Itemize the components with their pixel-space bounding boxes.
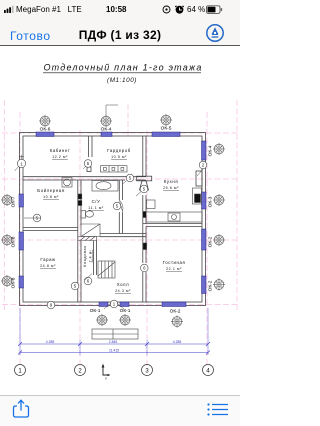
svg-text:24.3 м²: 24.3 м²	[115, 289, 131, 293]
svg-text:Кухня: Кухня	[164, 179, 179, 184]
svg-text:ОК-3: ОК-3	[208, 196, 214, 207]
svg-text:Кабинет: Кабинет	[50, 148, 71, 153]
svg-text:Гардероб: Гардероб	[107, 148, 131, 153]
svg-text:4.285: 4.285	[173, 340, 182, 344]
svg-text:24.8 м²: 24.8 м²	[40, 264, 56, 268]
svg-text:Гараж: Гараж	[40, 257, 55, 262]
svg-text:ОК-4: ОК-4	[101, 127, 112, 133]
svg-text:ОК-5: ОК-5	[161, 126, 172, 132]
svg-text:Гостиная: Гостиная	[163, 260, 186, 265]
svg-text:Бойлерная: Бойлерная	[37, 188, 64, 193]
svg-text:10.8 м²: 10.8 м²	[43, 195, 59, 199]
svg-text:25.6 м²: 25.6 м²	[163, 186, 179, 190]
svg-text:ОК-7: ОК-7	[11, 196, 17, 207]
svg-text:2.845: 2.845	[109, 340, 118, 344]
svg-text:4.285: 4.285	[46, 340, 55, 344]
svg-text:22.1 м²: 22.1 м²	[166, 267, 182, 271]
svg-text:Y: Y	[105, 377, 108, 381]
svg-text:3: 3	[145, 369, 149, 375]
svg-text:Кладовая: Кладовая	[83, 245, 87, 267]
svg-text:ОК-4: ОК-4	[208, 145, 214, 156]
svg-text:Отделочный план 1-го этажа: Отделочный план 1-го этажа	[43, 63, 202, 73]
svg-text:ОК-6: ОК-6	[40, 127, 51, 133]
svg-text:ОК-1: ОК-1	[90, 308, 101, 314]
svg-text:ОК-2: ОК-2	[170, 309, 181, 315]
svg-text:С/У: С/У	[92, 199, 101, 204]
svg-text:2.4 м²: 2.4 м²	[89, 249, 93, 262]
svg-text:Холл: Холл	[117, 282, 130, 287]
svg-text:10.5 м²: 10.5 м²	[111, 155, 127, 159]
svg-text:11.415: 11.415	[109, 348, 119, 352]
svg-text:(М1:100): (М1:100)	[107, 77, 137, 84]
svg-text:ОК-1: ОК-1	[120, 308, 131, 314]
svg-text:11.1 м²: 11.1 м²	[88, 206, 104, 210]
svg-text:ОК-8: ОК-8	[11, 277, 17, 288]
svg-text:ОК-8: ОК-8	[11, 236, 17, 247]
svg-text:2: 2	[78, 369, 82, 375]
svg-text:ОК-2: ОК-2	[208, 236, 214, 247]
svg-text:1: 1	[18, 369, 22, 375]
svg-text:ОК-2: ОК-2	[208, 280, 214, 291]
svg-text:12.2 м²: 12.2 м²	[52, 155, 68, 159]
svg-text:4: 4	[206, 369, 210, 375]
